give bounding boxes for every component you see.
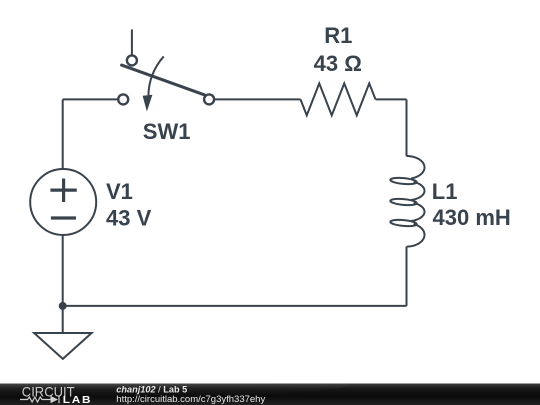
svg-text:http://circuitlab.com/c7g3yfh3: http://circuitlab.com/c7g3yfh337ehy	[116, 394, 265, 405]
svg-text:V1: V1	[106, 179, 133, 204]
svg-text:L1: L1	[432, 179, 458, 204]
svg-text:SW1: SW1	[143, 119, 191, 144]
svg-text:R1: R1	[324, 23, 352, 48]
svg-text:LAB: LAB	[63, 394, 93, 405]
svg-text:43 Ω: 43 Ω	[314, 51, 362, 76]
svg-text:430 mH: 430 mH	[433, 205, 511, 230]
svg-text:43 V: 43 V	[106, 206, 152, 231]
